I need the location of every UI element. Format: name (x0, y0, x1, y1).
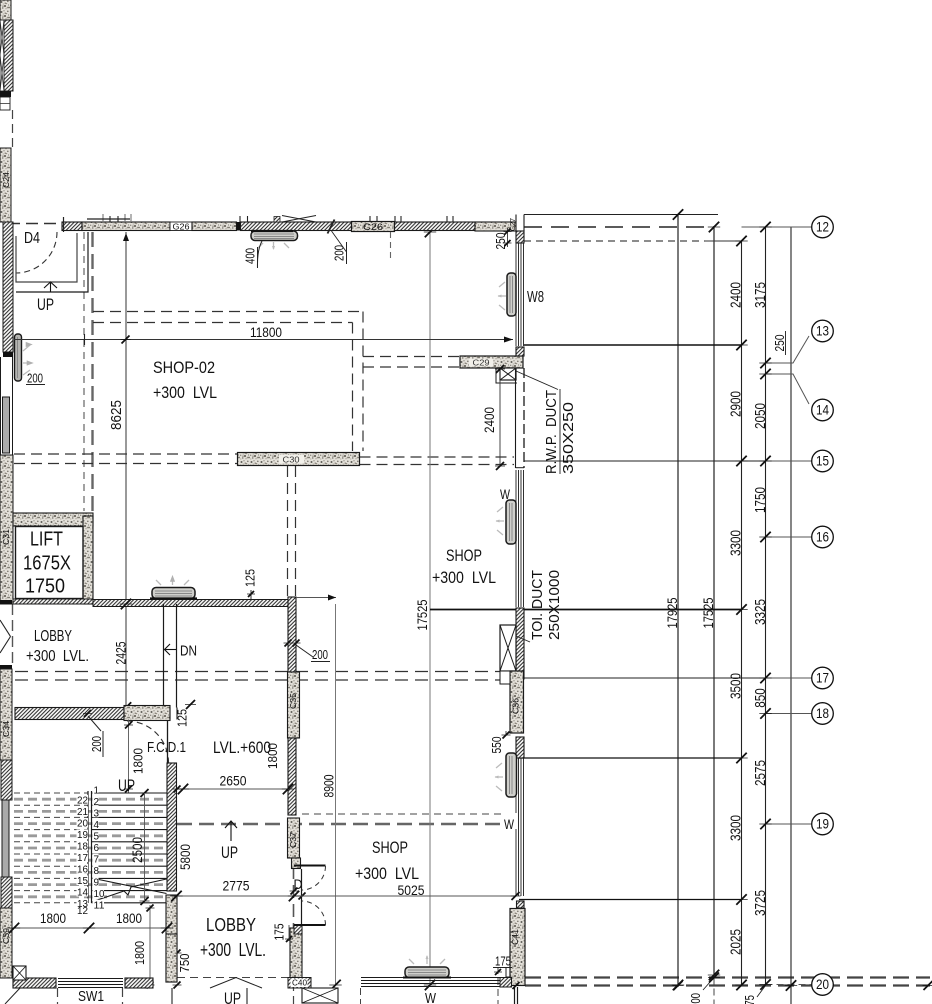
svg-text:LOBBY: LOBBY (34, 628, 72, 645)
wall stair bottom stipple col (166, 934, 177, 982)
svg-text:2775: 2775 (223, 878, 250, 894)
svg-text:11800: 11800 (250, 324, 282, 340)
node tick on x765.5 (759, 222, 771, 232)
node tick on x765.5 (759, 673, 771, 683)
node lift inner border (16, 527, 84, 599)
svg-text:200: 200 (90, 736, 104, 752)
svg-text:19: 19 (77, 830, 88, 841)
node dashed left wall opening x12 lower (12, 604, 14, 665)
node label C26 box (352, 222, 395, 232)
wire leader to bubble 14 (766, 374, 810, 404)
wall C40 vertical stipple (290, 928, 302, 978)
component TOI duct box (500, 625, 516, 671)
svg-text:16: 16 (816, 530, 829, 545)
svg-text:C36: C36 (512, 697, 521, 714)
node label C40 (291, 979, 308, 988)
component UP arrow D4 (50, 283, 52, 292)
component ceiling diffuser top (251, 231, 298, 241)
wire leader to bubble 13 (766, 336, 810, 363)
wall top band stipple seg3 (475, 222, 516, 231)
node grid bubble 15 (812, 450, 834, 472)
node tick on x765.5 (759, 819, 771, 829)
node dashed top-right y227 (long dash) (524, 226, 714, 228)
node tick x335 bottom (329, 980, 341, 990)
node tick 11800 ticks (84, 334, 86, 345)
wall top band hatch seg3 (395, 222, 476, 231)
wall stair top hatch (15, 708, 124, 720)
wall central stipple C37 (288, 818, 300, 858)
node tick on x791 bottom (785, 980, 797, 990)
wire dim line x765.5 (grid dims) (765, 227, 767, 985)
svg-text:17525: 17525 (700, 597, 716, 628)
node dashed link y356 to C29 (363, 356, 459, 358)
svg-text:3: 3 (94, 808, 100, 819)
node grid bubble 18 (812, 703, 834, 725)
wire leader to bubble 12 (742, 226, 812, 228)
node bulkhead dashed vert x352 (352, 323, 354, 452)
node centerline pair x84 (thin dashed) (83, 232, 85, 511)
component door D4 arc (16, 232, 57, 273)
svg-text:8625: 8625 (109, 400, 125, 430)
svg-text:6: 6 (94, 843, 100, 854)
component window W8 leaf (507, 273, 516, 316)
node grid bubble 20 (812, 974, 834, 996)
svg-text:17925: 17925 (664, 597, 680, 628)
node centerline pair x287 below C30 (287, 466, 289, 597)
wall C29 stipple (460, 356, 523, 368)
wire dim line y928 (14, 927, 167, 929)
svg-text:5800: 5800 (178, 844, 193, 870)
svg-text:15: 15 (77, 876, 88, 887)
svg-text:+300 LVL.: +300 LVL. (26, 648, 89, 665)
svg-text:UP: UP (37, 295, 54, 314)
svg-text:20: 20 (816, 977, 829, 992)
svg-text:DN: DN (180, 644, 197, 660)
component window glazing slab left (3, 397, 10, 453)
wall right hatch y737 (516, 737, 524, 758)
wire top edge line y214.5 (524, 214, 718, 216)
svg-text:250: 250 (494, 232, 508, 249)
node x714 dashed tail (713, 978, 715, 1004)
node centerline pair x92.5 (heavy dashed) (91, 232, 93, 511)
wall left hatch y760 (1, 760, 12, 800)
wall left stipple C34 zone (0, 669, 12, 760)
node lambda door mark (210, 978, 262, 989)
node dashed below SW1 x57 (57, 988, 59, 1004)
node mullion ticks above wall (109, 216, 111, 222)
node thin dashed y814 (302, 813, 516, 815)
svg-text:1: 1 (94, 785, 100, 796)
component spray arrows bottom window (409, 955, 445, 964)
wall bottom hatch seg2 (125, 978, 153, 988)
node TOI DUCT leader (516, 636, 530, 642)
wall left cap y600 (0, 600, 12, 604)
svg-text:SW1: SW1 (78, 988, 104, 1004)
wall C40 hatch band (288, 978, 311, 989)
wall top band hatch seg2 (241, 222, 352, 231)
node dashed link y367 to C29 (363, 366, 459, 368)
svg-text:W: W (504, 816, 515, 832)
component door D hinge bottom (294, 924, 326, 926)
svg-text:LVL.+600: LVL.+600 (213, 738, 271, 757)
node tick on x741.5 (735, 604, 747, 614)
component stair treads solid (92, 792, 167, 794)
wire leader to bubble 20 (dashed) (766, 984, 812, 986)
wire grid line x791 (790, 227, 792, 1004)
svg-text:2575: 2575 (752, 760, 769, 786)
node tick on x765.5 (759, 532, 771, 542)
svg-text:1750: 1750 (752, 487, 769, 513)
svg-text:3325: 3325 (752, 599, 769, 625)
node dashed door D centerline (293, 866, 295, 940)
svg-text:3300: 3300 (728, 530, 745, 556)
node long dashed grid y680 (15, 679, 500, 681)
svg-text:C26: C26 (363, 222, 383, 232)
svg-text:SHOP-02: SHOP-02 (153, 358, 215, 377)
node tick y985 x516 (512, 982, 521, 989)
svg-text:1675X: 1675X (23, 553, 71, 575)
wall left hatch upper w/ shaft (4, 20, 14, 91)
wire ref line y461 (524, 460, 766, 462)
node heavy dashed bottom y977 right (525, 976, 930, 978)
wall left black cap y91 (0, 91, 11, 97)
node tick 2425 bottom (120, 702, 132, 712)
wall right stipple C41 (510, 909, 525, 986)
svg-text:2: 2 (94, 797, 100, 808)
svg-text:2050: 2050 (752, 403, 769, 429)
svg-text:1800: 1800 (40, 910, 66, 926)
node 200 leader bottom (703, 978, 714, 991)
node C36 step (500, 671, 510, 684)
svg-text:3500: 3500 (728, 673, 745, 699)
svg-text:125: 125 (244, 569, 258, 587)
node dashed top-right y241 (short dash) (524, 240, 705, 242)
node door frame lines y97-110 (0, 97, 10, 110)
svg-text:250: 250 (772, 335, 787, 352)
svg-text:18: 18 (816, 706, 829, 721)
svg-text:8900: 8900 (321, 774, 337, 797)
svg-text:2400: 2400 (482, 407, 497, 433)
wire ref line y678 (524, 677, 766, 679)
wall C30 stipple (238, 453, 360, 466)
component window leaf bottom (405, 967, 449, 978)
wire dim line y339.5 (14, 339, 513, 341)
component duct box below C29 (500, 368, 516, 380)
svg-text:12: 12 (816, 220, 829, 235)
svg-text:22: 22 (77, 796, 88, 807)
svg-text:2650: 2650 (220, 773, 247, 789)
node tick on x741.5 (735, 980, 747, 990)
node tick on x678 top (672, 209, 684, 219)
svg-text:1800: 1800 (265, 743, 280, 769)
svg-text:550: 550 (490, 736, 504, 753)
component door D leaf top (301, 869, 303, 896)
svg-text:14: 14 (816, 403, 829, 418)
node grid bubble 14 (812, 399, 834, 421)
node tick far right y985 (923, 981, 932, 990)
svg-text:9: 9 (94, 877, 100, 888)
wall left stipple C24 (0, 148, 11, 222)
node long dashed grid y671 (15, 671, 500, 673)
component W spray arrows mid (496, 507, 505, 535)
svg-text:+300 LVL: +300 LVL (432, 568, 496, 587)
node diagonal leader bottom left (5, 988, 20, 1004)
wall left stipple C31 zone (0, 455, 13, 604)
svg-text:UP: UP (224, 989, 241, 1004)
svg-text:8: 8 (94, 866, 100, 877)
wall lobby top band (93, 600, 288, 607)
component door D4 frame (16, 233, 77, 282)
svg-text:LIFT: LIFT (30, 529, 63, 551)
wall stair right hatch (167, 763, 177, 891)
node tick on x765.5 (759, 369, 771, 379)
node tick on x714 bottom (708, 970, 720, 980)
node tick on x765.5 (759, 358, 771, 368)
wire solid seg y241 (705, 240, 742, 242)
node tick on x430 bottom (424, 980, 436, 990)
node grid bubble 19 (812, 813, 834, 835)
node dashed line y454 left (14, 453, 238, 455)
component lobby UP arrow (230, 822, 232, 841)
svg-text:4: 4 (94, 820, 100, 831)
node tick on x430 top (424, 227, 436, 237)
node dashed x360 below window (360, 988, 362, 1004)
wire leader to bubble 17 (766, 677, 812, 679)
wall right stipple C36 (510, 671, 524, 733)
svg-text:2500: 2500 (130, 837, 145, 863)
wall lift bottom band (13, 599, 93, 604)
node grid bubble 12 (812, 216, 834, 238)
component window SW glazing bottom (361, 977, 511, 979)
svg-text:C35: C35 (289, 692, 298, 709)
svg-text:18: 18 (77, 842, 88, 853)
node label G26 box (170, 222, 192, 231)
wall left stipple top (0, 0, 11, 20)
wall central hatch mid (288, 738, 296, 815)
svg-text:400: 400 (244, 248, 258, 264)
svg-text:11: 11 (94, 900, 105, 911)
svg-text:1800: 1800 (131, 748, 146, 774)
node door swing chevron left wall (0, 620, 11, 637)
svg-text:750: 750 (177, 954, 192, 973)
node centerline pair x295 below C30 (295, 466, 297, 597)
wall central hatch upper (288, 597, 296, 672)
node tick x63 crossing wall (63, 217, 65, 232)
node label W lower (501, 813, 517, 829)
node tick on x741.5 (735, 236, 747, 246)
node tick on x765.5 (759, 456, 771, 466)
svg-text:12: 12 (77, 906, 88, 917)
wall lift top stipple (13, 513, 93, 526)
svg-text:2425: 2425 (114, 642, 129, 665)
component window W leaf lower (506, 753, 517, 797)
wall left hatch y877 (1, 877, 12, 908)
component door D hinge top (294, 865, 326, 867)
svg-text:17: 17 (816, 671, 829, 686)
node dashed stub below C26 (390, 232, 392, 258)
component spray arrows at left leaf (23, 343, 32, 375)
node label RWP DUCT leader (516, 371, 558, 390)
wall hatch square window end (500, 978, 512, 988)
wire leader to bubble 18 (766, 713, 812, 715)
node label C30 box (279, 455, 304, 464)
wire dim line y896 (177, 895, 516, 897)
node grid bubble 13 (812, 320, 834, 342)
node tick 2425 top (120, 599, 132, 609)
node hatch square above wall (274, 217, 280, 223)
svg-text:7: 7 (94, 854, 100, 865)
wall left stipple C39 zone (0, 908, 12, 978)
wire ref line y899.5 (519, 899, 742, 901)
svg-text:19: 19 (816, 817, 829, 832)
wall top band stipple seg2 (192, 222, 237, 231)
component window SW1 glazing (58, 978, 123, 980)
node tick near stair wall corner (185, 700, 196, 709)
svg-text:UP: UP (118, 776, 135, 795)
wall right hatch y608 (516, 608, 524, 679)
wall top band hatch seg1 (62, 222, 82, 231)
wire short line y219 (87, 218, 130, 220)
node tick on x741.5 (735, 894, 747, 904)
node X box left (13, 966, 26, 980)
svg-text:W: W (425, 990, 437, 1004)
wall right corner lines top (523, 215, 525, 232)
node stair break line 1 (92, 878, 167, 894)
node dashed x498 below window (497, 967, 499, 1004)
wire dim line x150 lower (149, 905, 151, 985)
svg-text:20: 20 (77, 819, 88, 830)
node heavy dashed bottom y985 right (525, 984, 930, 986)
node heavy dashed boundary y824 (177, 823, 505, 825)
svg-text:3300: 3300 (728, 815, 745, 841)
component W spray arrows lower (495, 763, 504, 791)
wall top band stipple seg1 (82, 222, 170, 231)
component window W glazing lower (515, 758, 517, 896)
node label C29 box (469, 359, 493, 367)
svg-text:3175: 3175 (752, 282, 769, 308)
svg-text:350X250: 350X250 (560, 402, 577, 474)
wall stair right stipple (166, 895, 177, 982)
wire dim line x335.5 (8900) (335, 604, 337, 985)
wire ref line y609.5 (toilet duct wall) (430, 609, 742, 611)
wire 250 underline (785, 331, 787, 355)
wall left boundary lines mid (0, 357, 2, 455)
wall central stipple foot (292, 858, 301, 869)
component window W glazing mid (515, 470, 517, 607)
component stair treads dashed left flight (14, 792, 88, 794)
svg-text:R.W.P. DUCT: R.W.P. DUCT (543, 390, 560, 474)
svg-text:+300 LVL.: +300 LVL. (200, 940, 266, 960)
svg-text:D4: D4 (24, 230, 40, 247)
wire 8900 start stub (296, 597, 336, 599)
wall central stipple C35 (288, 672, 300, 738)
svg-text:C41: C41 (511, 928, 520, 945)
svg-text:2900: 2900 (728, 391, 745, 417)
component door leaf left wall (15, 334, 22, 381)
node ticks y896 (170, 891, 182, 901)
wall left cap y665 (0, 665, 12, 669)
svg-text:5025: 5025 (398, 882, 425, 898)
wire dim line x678 (17925) (677, 215, 679, 986)
component door FCD1 leaf (167, 721, 169, 763)
svg-text:125: 125 (176, 709, 190, 727)
component window W8 glazing (515, 243, 517, 346)
svg-text:850: 850 (752, 688, 769, 708)
wall right hatch y231 (516, 231, 524, 243)
svg-text:+300 LVL: +300 LVL (153, 383, 217, 402)
svg-text:250X1000: 250X1000 (547, 570, 563, 640)
node dashed door SW opening (177, 977, 290, 979)
component window glazing slab left lower (2, 800, 9, 877)
svg-text:UP: UP (221, 843, 238, 862)
svg-text:2025: 2025 (728, 929, 745, 955)
svg-text:13: 13 (816, 324, 829, 339)
wall right hatch y901 (517, 901, 525, 908)
svg-text:1750: 1750 (25, 576, 65, 598)
component door D leaf bottom (301, 896, 303, 924)
node ticks door D (290, 888, 299, 895)
wall C40 hatch tri (294, 925, 302, 934)
svg-text:200: 200 (312, 648, 328, 662)
wall stair corridor lines (163, 604, 165, 708)
node tick on x741.5 (735, 340, 747, 350)
component window W leaf mid (506, 500, 516, 544)
svg-text:175: 175 (743, 995, 757, 1004)
svg-text:10: 10 (94, 889, 105, 900)
node tick on x714 top (708, 222, 720, 232)
svg-text:5: 5 (94, 831, 100, 842)
node tick 8625 top arrow (123, 233, 129, 241)
svg-text:C37: C37 (289, 831, 298, 848)
node tick on x741.5 (735, 456, 747, 466)
node 175 leader bottom (757, 986, 766, 998)
node flat X mark above wall (282, 216, 316, 223)
svg-text:200: 200 (27, 372, 43, 386)
svg-text:SHOP: SHOP (372, 838, 408, 857)
wire dim line x126 (8625/2425) (125, 232, 127, 707)
node tick on x678 bottom (672, 980, 684, 990)
node ticks y928 (8, 923, 20, 933)
node grid bubble 17 (812, 667, 834, 689)
wall right hatch y347 (516, 347, 524, 356)
wire ref line y345 (524, 344, 742, 346)
component door D arc top (302, 866, 326, 890)
component stair stringer (87, 791, 89, 903)
svg-text:175: 175 (495, 955, 511, 969)
svg-text:17525: 17525 (414, 599, 430, 630)
svg-text:C30: C30 (283, 454, 300, 464)
node dashed line y454 right (360, 456, 515, 458)
node tick on x765.5 (759, 708, 771, 718)
component stair tread nosings gray dashed (14, 798, 167, 801)
node grid bubble 16 (812, 526, 834, 548)
node dashed below x293 door D (293, 940, 295, 1004)
wire leader to bubble 15 (766, 460, 812, 462)
svg-text:SHOP: SHOP (446, 546, 482, 565)
svg-text:C29: C29 (473, 358, 490, 368)
node dashed line y463 left (14, 463, 238, 465)
svg-text:W8: W8 (527, 289, 544, 306)
wire dim line x741.5 (room dims) (741, 241, 743, 985)
node tick x714 y977 (708, 973, 720, 983)
node short verticals below bottom wall (171, 988, 173, 1004)
wall right cavity below C29 (515, 368, 517, 468)
node tick 2500 bottom (140, 897, 150, 905)
wire ref line y758 (518, 757, 742, 759)
wall stair top stipple (124, 706, 170, 721)
node stair break line 2 (92, 879, 167, 902)
svg-text:TOI. DUCT: TOI. DUCT (530, 570, 546, 640)
